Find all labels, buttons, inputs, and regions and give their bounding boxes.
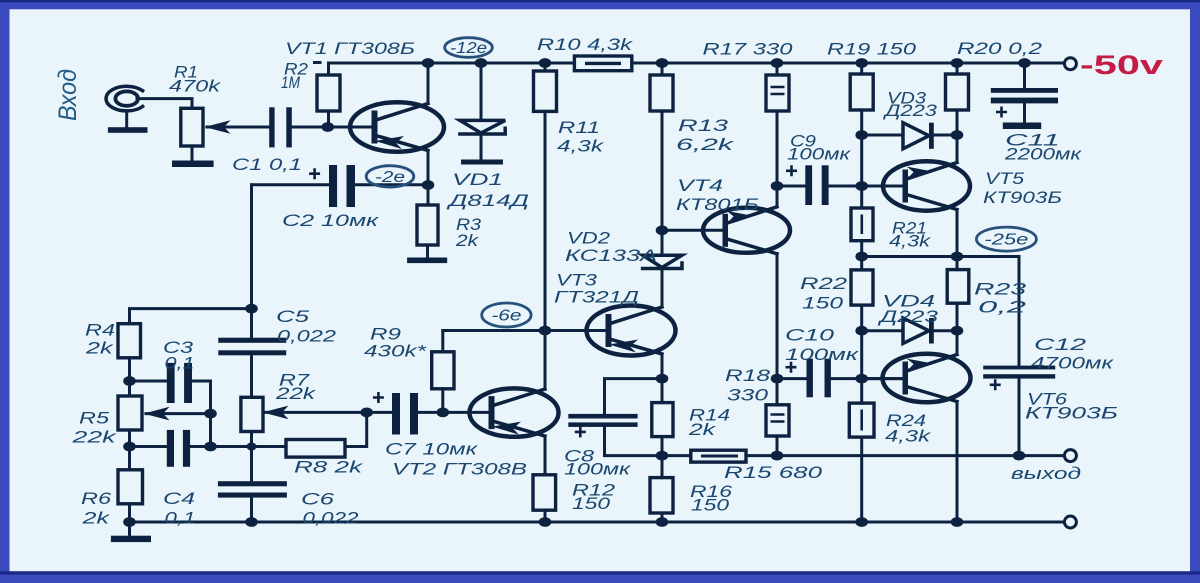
transistor VT3 GT321D (PNP) (587, 306, 676, 356)
svg-text:C10: C10 (785, 326, 835, 345)
node: ladder top / C5 column (245, 304, 258, 314)
node label oval -25e (976, 227, 1036, 251)
resistor R3 2k (417, 205, 438, 245)
svg-text:2k: 2k (81, 509, 111, 528)
svg-text:Вход: Вход (54, 69, 82, 121)
wire: output row with R15 (662, 454, 1064, 457)
wire: VT4 base row (662, 229, 723, 232)
node: VD4 cathode / VT6 collector (951, 326, 964, 336)
node: C10 / VT6 base (855, 374, 868, 384)
svg-text:2k: 2k (688, 420, 718, 439)
wire: R7 wiper row (265, 411, 367, 414)
wire: VT6 collector (956, 331, 959, 355)
node: rail junction R19 (855, 58, 868, 68)
node: bottom rail R12 (539, 517, 552, 527)
resistor R9 430k (432, 352, 454, 389)
ground bar under R1 (172, 161, 214, 168)
resistor R17 330 (766, 75, 789, 111)
wire: jack ground stem (125, 111, 128, 127)
wire: R23 leads (956, 257, 959, 331)
wire: ladder column segments (128, 358, 131, 522)
svg-text:Д223: Д223 (877, 307, 939, 326)
svg-text:Д814Д: Д814Д (446, 191, 529, 210)
svg-text:2k: 2k (85, 339, 115, 358)
svg-text:VD1: VD1 (452, 170, 503, 189)
svg-text:R13: R13 (678, 116, 729, 135)
wire: R3 leads (426, 185, 430, 258)
capacitor C12 4700uF polarized (983, 366, 1055, 391)
svg-text:0,2: 0,2 (978, 298, 1027, 317)
node label oval -2e (366, 166, 414, 187)
node: R18 bottom / output row (771, 451, 784, 461)
svg-text:4,3k: 4,3k (885, 427, 932, 446)
svg-text:C2 10мк: C2 10мк (282, 211, 379, 230)
resistor R19 150 (850, 74, 873, 110)
wire: C4 row to R8 (130, 445, 287, 448)
wire: R22 leads (860, 257, 863, 331)
wire: VD3 row (862, 134, 957, 137)
wire: VT5 collector (956, 135, 959, 163)
svg-text:-6e: -6e (491, 308, 522, 325)
wire: -25e row to C12 (862, 257, 1019, 366)
svg-text:100мк: 100мк (785, 345, 859, 364)
capacitor C11 2200uF polarized (991, 88, 1058, 129)
svg-text:C5: C5 (276, 307, 310, 326)
wire: VT1 emitter down (427, 151, 430, 186)
svg-text:0,022: 0,022 (277, 327, 337, 346)
wire: C7 row to VT2 base (367, 411, 490, 414)
capacitor C5 0.022 (218, 338, 286, 356)
svg-text:R11: R11 (558, 118, 600, 137)
resistor R18 330 (766, 405, 789, 436)
wire: top supply rail (330, 62, 1064, 65)
node: R4 bottom / C3 (123, 376, 136, 386)
node: rail junction R13 (656, 58, 669, 68)
svg-text:C6: C6 (301, 490, 335, 509)
wire: C1 to VT1 base (292, 126, 372, 129)
svg-text:VT4: VT4 (677, 176, 723, 195)
resistor R16 150 (650, 478, 673, 513)
wire: VT5 emitter (956, 210, 959, 257)
svg-text:R15 680: R15 680 (724, 463, 823, 482)
wire: R19 column (860, 63, 863, 135)
ground bar under R3 (407, 258, 447, 264)
wire: C12 bottom stem (1018, 379, 1021, 456)
wire: R1 bottom lead (191, 146, 194, 161)
node label oval -12e (445, 38, 493, 58)
node: R13 bottom / VT4 base / VD2 (656, 225, 669, 235)
svg-text:150: 150 (572, 494, 611, 513)
resistor R20 0.2 (946, 74, 969, 110)
svg-text:22k: 22k (71, 428, 118, 447)
resistor R2 1M (317, 75, 340, 111)
svg-text:R5: R5 (79, 409, 110, 428)
node label oval -6e (482, 303, 531, 327)
wire: R16 leads (661, 456, 664, 522)
svg-text:R22: R22 (800, 274, 848, 293)
resistor R13 6.2k (650, 75, 673, 111)
svg-text:КС133А: КС133А (565, 246, 657, 265)
capacitor C3 0.1 (167, 363, 192, 403)
svg-text:R17 330: R17 330 (703, 40, 794, 59)
resistor R24 4.3k (849, 403, 874, 437)
capacitor C8 100uF polarized (568, 414, 637, 438)
wire: VT6 emitter (956, 402, 959, 523)
wire: VD2 stems (661, 230, 664, 307)
wire: R13 column / VT4 base node (661, 63, 664, 230)
frame dark bottom inner edge (0, 571, 1200, 574)
node: R22 bottom / VD4 anode (855, 326, 868, 336)
wire: -6e node row (443, 329, 607, 332)
node: rail junction VT1 collector (422, 58, 435, 68)
svg-text:VD2: VD2 (567, 229, 611, 248)
resistor R23 0.2 (947, 270, 969, 304)
node: VT1 emitter / C2 / R3 (422, 180, 435, 190)
resistor R8 2k (286, 440, 345, 458)
svg-text:430k*: 430k* (364, 342, 428, 361)
node: VD3 anode (855, 130, 868, 140)
node: rail junction R17 (771, 58, 784, 68)
terminal: -50v (1064, 58, 1076, 70)
svg-text:-50v: -50v (1080, 50, 1163, 80)
transistor VT6 KT903B (NPN) (883, 354, 971, 402)
svg-text:КТ903Б: КТ903Б (1025, 404, 1118, 423)
node: C12 bottom / output row (1013, 451, 1026, 461)
svg-text:R10 4,3k: R10 4,3k (537, 35, 634, 54)
node: R14 bottom / C8 / R15 (656, 451, 669, 461)
wire: R20 column (956, 63, 959, 135)
frame dark top edge (0, 0, 1200, 2)
node: rail junction C11 (1018, 58, 1031, 68)
node: bottom rail R16 (656, 517, 669, 527)
node: VT5 emitter / -25e (951, 252, 964, 262)
wire: VD4 row (862, 329, 957, 332)
capacitor C4 0.1 (167, 430, 190, 467)
node: bottom rail ground (123, 517, 136, 527)
svg-text:-12e: -12e (450, 40, 487, 57)
svg-text:Д223: Д223 (882, 101, 937, 120)
node: R7 wiper / R8 (360, 408, 373, 418)
wire: ladder top row (130, 309, 252, 324)
node: C4 branch (204, 442, 217, 452)
node: VT3 emitter / C8 / R14 (656, 374, 669, 384)
svg-text:22k: 22k (275, 384, 318, 403)
resistor R11 4.3k (534, 71, 557, 111)
wire: VT2 emitter to R12 (544, 436, 547, 522)
transistor VT2 GT308V (PNP) (470, 388, 559, 436)
wire: R19 column to VT5 base node (860, 135, 863, 186)
wire: input jack to R1 (137, 99, 192, 109)
transistor VT4 KT801B (NPN) (703, 207, 790, 254)
svg-text:R4: R4 (85, 321, 115, 340)
svg-text:330: 330 (727, 386, 769, 405)
node: R17 bottom / C9 / VT4 collector (771, 181, 784, 191)
svg-text:C12: C12 (1034, 335, 1087, 354)
svg-text:100мк: 100мк (564, 460, 631, 479)
svg-text:VT2 ГТ308В: VT2 ГТ308В (392, 460, 527, 479)
svg-text:-25e: -25e (984, 232, 1029, 249)
resistor R14 2k (652, 403, 673, 437)
svg-text:ГТ321Д: ГТ321Д (554, 288, 639, 307)
wire: VT1 collector to rail (427, 63, 430, 104)
svg-text:4700мк: 4700мк (1031, 354, 1114, 373)
svg-text:VT1 ГТ308Б: VT1 ГТ308Б (285, 39, 415, 58)
svg-text:150: 150 (691, 496, 730, 515)
transistor VT1 GT308B (PNP) (350, 102, 444, 151)
capacitor C9 100uF polarized (786, 165, 829, 205)
wire: R2 leads (327, 63, 330, 127)
svg-text:100мк: 100мк (787, 145, 851, 164)
svg-text:0,1: 0,1 (165, 509, 196, 528)
svg-text:2200мк: 2200мк (1004, 145, 1083, 164)
capacitor C2 10uF polarized (309, 165, 355, 207)
ground bar under jack (108, 127, 148, 133)
wire: C9 row (777, 185, 903, 188)
resistor R22 150 (851, 270, 873, 305)
wire: C8 stems and bottom link (605, 379, 663, 456)
node: VT4 emitter / C10 / R18 (771, 374, 784, 384)
svg-text:C7 10мк: C7 10мк (385, 440, 478, 459)
node: bottom rail C6 column (245, 517, 258, 527)
diode VD2 KS133A zener (643, 255, 682, 268)
svg-text:КТ801Б: КТ801Б (676, 195, 759, 214)
capacitor C10 100uF polarized (786, 359, 831, 398)
node: VT1 base / R2 (322, 122, 335, 132)
svg-text:2k: 2k (455, 231, 480, 250)
wire: R11 column / VT2 collector (544, 63, 547, 389)
resistor R7 22k potentiometer (241, 397, 289, 431)
capacitor C7 10uF polarized (373, 392, 418, 435)
wire: R5 wiper row (146, 412, 211, 415)
svg-text:VT5: VT5 (985, 169, 1025, 188)
wire: R17 column / VT4 collector node (776, 63, 779, 207)
resistor R15 680 (691, 450, 746, 462)
svg-text:C1 0,1: C1 0,1 (232, 155, 302, 174)
node: -6e tap on VT2 collector (539, 326, 552, 336)
svg-text:1M: 1M (281, 73, 301, 92)
capacitor C1 0.1 (269, 107, 292, 147)
wire: R9 leads (441, 331, 444, 413)
wire: bottom common rail (130, 521, 1064, 524)
svg-text:КТ903Б: КТ903Б (983, 188, 1062, 207)
wire: R21 leads (860, 186, 863, 257)
svg-text:R8 2k: R8 2k (294, 458, 364, 477)
svg-text:R23: R23 (974, 280, 1027, 299)
svg-text:6,2k: 6,2k (676, 135, 736, 154)
node: R9 bottom / C7-VT2 (437, 408, 450, 418)
wire: main ground stem (128, 522, 131, 536)
resistor R4 2k (118, 324, 141, 358)
wire: VT6 base row (862, 377, 903, 380)
wire: R1 wiper to C1 (207, 126, 269, 129)
wire: VT4 emitter column (776, 254, 779, 379)
svg-text:0,022: 0,022 (303, 509, 360, 528)
node: R21 bottom / R22 top (855, 252, 868, 262)
resistor R1 470k potentiometer (181, 108, 231, 146)
node: R5 wiper / C3 branch (204, 409, 217, 419)
svg-text:R20 0,2: R20 0,2 (957, 39, 1043, 58)
node: R7 bottom / C6 (247, 443, 257, 451)
wire: R19 column VD4 to VT6 base to R24 (860, 331, 863, 522)
wire: rail stub dash left of R2 (315, 61, 321, 64)
ground bar main (bottom left) (111, 536, 151, 542)
wire: R8 right lead up (345, 412, 367, 446)
wire: VT3 emitter down (661, 354, 664, 379)
node: bottom rail VT6 emitter (951, 517, 964, 527)
node: rail junction R20 (951, 58, 964, 68)
resistor R6 2k (118, 470, 143, 504)
node: R5 bottom / C4 (123, 442, 136, 452)
wire: R14 leads (661, 379, 664, 456)
svg-text:4,3k: 4,3k (557, 137, 605, 156)
diode VD3 D223 (903, 123, 934, 149)
node: rail junction R11 (539, 58, 552, 68)
node: VD3 cathode / VT5 collector (951, 130, 964, 140)
svg-text:R18: R18 (725, 366, 771, 385)
svg-text:470k: 470k (169, 77, 222, 96)
resistor R5 22k potentiometer (118, 396, 170, 430)
wire: C2 row (252, 183, 429, 186)
terminal: output top (1064, 450, 1076, 462)
transistor VT5 KT903B (NPN) (883, 161, 970, 210)
diode VD4 D223 (903, 318, 934, 344)
wire: left vertical column x=251.5 (250, 185, 253, 522)
capacitor C6 0.022 (218, 481, 287, 497)
svg-text:150: 150 (802, 294, 844, 313)
resistor R10 4.3k (574, 56, 631, 71)
svg-text:-2e: -2e (375, 169, 406, 186)
node: C9 / VT5 base (855, 181, 868, 191)
node: bottom rail R24 (855, 517, 868, 527)
svg-text:4,3k: 4,3k (889, 232, 932, 251)
wire: C11 stems (1023, 63, 1026, 123)
svg-text:C4: C4 (163, 489, 195, 508)
resistor R12 150 (533, 475, 556, 510)
wire: C3 row and branch down (130, 381, 211, 447)
input jack connector (106, 86, 143, 111)
resistor R21 4.3k (851, 208, 873, 241)
svg-text:0,1: 0,1 (165, 354, 195, 373)
terminal: output bottom (1064, 516, 1076, 528)
node: rail junction VD1 (475, 58, 488, 68)
svg-text:R19 150: R19 150 (827, 40, 917, 59)
wire: R18 leads (776, 379, 779, 456)
wire: C10 row (777, 377, 903, 380)
svg-text:выход: выход (1011, 464, 1081, 483)
svg-text:R6: R6 (81, 489, 112, 508)
diode VD1 D814D zener (460, 63, 505, 165)
